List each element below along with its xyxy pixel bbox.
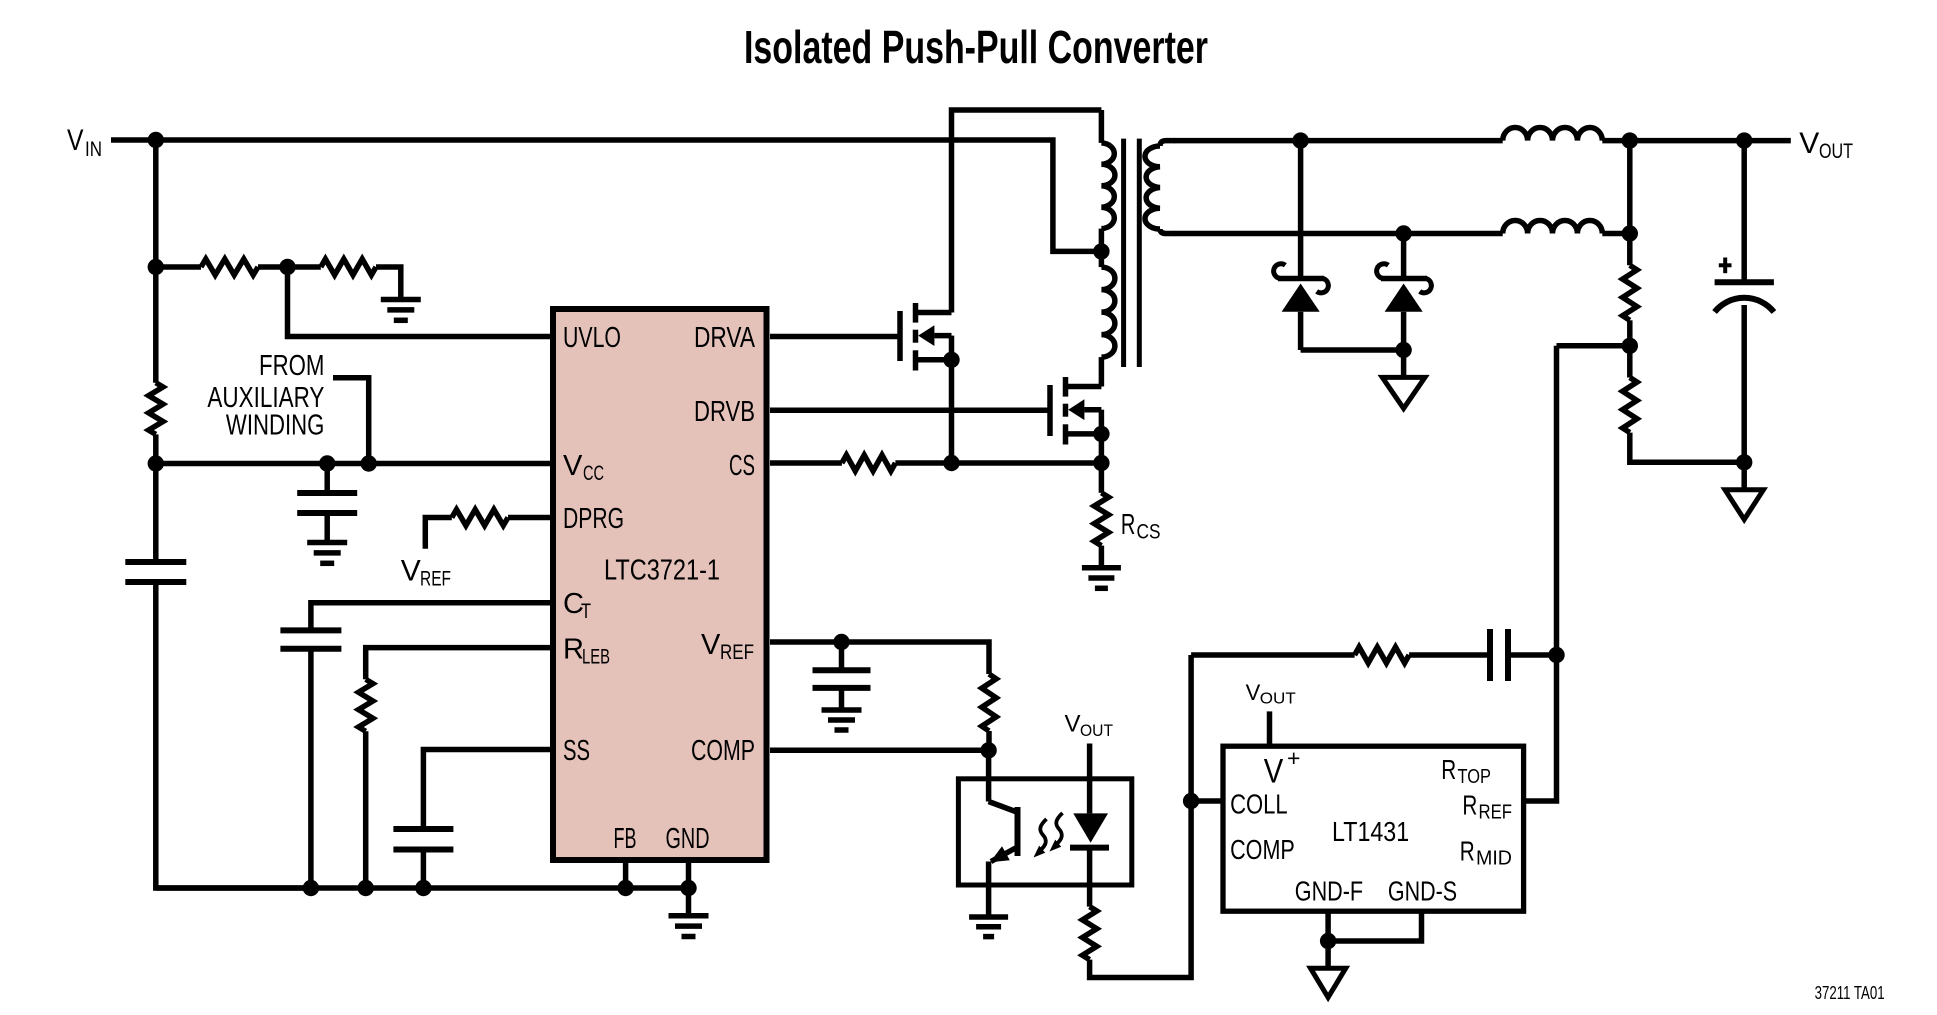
junction VREF cap (833, 634, 849, 650)
wire VCC (156, 461, 550, 467)
svg-text:UVLO: UVLO (563, 322, 621, 354)
transformer T1 core (1121, 139, 1126, 367)
resistor UVLO lower (321, 259, 376, 275)
transformer T1 secondary bottom corner (1160, 229, 1175, 234)
svg-text:REF: REF (1479, 802, 1513, 824)
wire VIN rail (111, 140, 1096, 251)
resistor divider bottom (1623, 378, 1637, 433)
junction COMP node (980, 742, 996, 758)
wire COUT top (1741, 141, 1747, 283)
optocoupler U2 body (958, 779, 1131, 885)
svg-text:R: R (1460, 836, 1475, 867)
junction CS-Q2 (1093, 455, 1109, 471)
svg-text:REF: REF (720, 641, 754, 664)
svg-text:V: V (1264, 753, 1284, 791)
transformer T1 secondary winding (1145, 146, 1160, 229)
svg-text:Isolated Push-Pull Converter: Isolated Push-Pull Converter (744, 21, 1208, 73)
junction COUT gnd (1736, 454, 1752, 470)
ground LT1431 triangle (1311, 968, 1346, 997)
svg-text:TOP: TOP (1458, 766, 1492, 788)
diode opto LED (1087, 744, 1093, 814)
wire comp RC mid (1409, 652, 1490, 658)
wire secondary top (1174, 138, 1503, 144)
wire RREF vertical (1524, 346, 1557, 801)
transformer T1 secondary top corner (1160, 141, 1175, 146)
wire RCS top (1099, 463, 1105, 493)
wire divider lower seg (1627, 346, 1633, 378)
junction comp RC (1548, 647, 1564, 663)
wire COMP (770, 748, 989, 754)
inductor L2 (1503, 220, 1603, 233)
wire DPRG to IC (508, 515, 550, 521)
wire Q1 source down (949, 360, 955, 463)
junction D1 top (1292, 132, 1308, 148)
junction CT rail (303, 880, 319, 896)
wire divider mid seg (1627, 320, 1633, 346)
svg-text:COLL: COLL (1230, 789, 1288, 820)
wire SS cap bottom (421, 850, 427, 889)
svg-text:V: V (1065, 711, 1081, 738)
wire UVLO seg2 (258, 264, 288, 270)
wire divider to gnd (1630, 433, 1744, 463)
wire comp RC right (1508, 652, 1557, 658)
wire DPRG corner (425, 518, 452, 549)
wire L2 out (1602, 231, 1630, 237)
transformer T1 primary top (1099, 110, 1105, 143)
wire GND drop (686, 888, 692, 916)
svg-text:COMP: COMP (691, 735, 755, 767)
wire RLEB bottom (363, 731, 369, 888)
junction Q1 source (943, 352, 959, 368)
wire VREF cap gnd stub (839, 688, 845, 708)
junction VIN left (148, 132, 164, 148)
wire CT (311, 603, 550, 631)
transformer T1 primary upper tail (1099, 229, 1105, 252)
junction divider tap (1622, 338, 1638, 354)
wire left rail seg (153, 434, 159, 464)
wire VREF pin (770, 642, 989, 674)
svg-text:CS: CS (729, 450, 755, 482)
capacitor input bulk (125, 559, 186, 565)
capacitor COUT polarized (1715, 279, 1774, 285)
svg-text:OUT: OUT (1819, 140, 1853, 163)
svg-text:V: V (401, 555, 421, 588)
svg-text:GND-F: GND-F (1295, 876, 1363, 907)
wire LT1431 gnd stub (1325, 941, 1331, 968)
ground IC GND (669, 913, 709, 919)
wire COUT bottom (1741, 305, 1747, 462)
wire left cap top (153, 464, 159, 563)
junction diode gnd (1395, 342, 1411, 358)
capacitor VREF bypass (813, 667, 871, 673)
wire DRVA (770, 334, 898, 340)
wire COLL pin (1191, 798, 1223, 804)
resistor RLEB (359, 679, 373, 731)
wire diode gnd stub (1401, 350, 1407, 377)
svg-text:37211 TA01: 37211 TA01 (1815, 982, 1885, 1003)
wire UVLO seg1 (156, 264, 201, 270)
capacitor SS (393, 826, 453, 832)
svg-text:IN: IN (85, 138, 102, 161)
wire L1 to VOUT (1602, 138, 1791, 144)
junction T1 center tap (1093, 243, 1109, 259)
junction D2 top (1395, 225, 1411, 241)
wire CS seg2 (895, 460, 951, 466)
junction GND rail (680, 880, 696, 896)
wire UVLO seg3 (288, 264, 321, 270)
svg-text:LTC3721-1: LTC3721-1 (604, 555, 720, 587)
wire secondary bottom (1174, 231, 1503, 237)
svg-text:MID: MID (1476, 848, 1512, 870)
capacitor CT (280, 627, 341, 633)
wire LED resistor out (1090, 655, 1192, 978)
transformer T1 primary lower winding (1101, 267, 1115, 357)
wire aux winding feed (333, 378, 369, 464)
svg-text:V: V (67, 124, 84, 157)
wire pullup bottom (986, 731, 992, 750)
ground diodes triangle (1382, 377, 1425, 408)
wire diode join (1301, 347, 1404, 353)
svg-text:DRVA: DRVA (694, 322, 756, 354)
svg-text:T: T (581, 600, 591, 623)
svg-text:CC: CC (583, 462, 604, 485)
svg-text:R: R (1462, 790, 1477, 821)
resistor UVLO upper (201, 259, 258, 275)
wire CT cap bottom (308, 649, 314, 888)
resistor divider top (1623, 265, 1637, 320)
resistor VREF pullup (982, 674, 996, 731)
junction SS rail (415, 880, 431, 896)
svg-text:OUT: OUT (1080, 721, 1113, 740)
wire RLEB (366, 648, 550, 680)
svg-text:WINDING: WINDING (226, 409, 325, 441)
svg-text:LT1431: LT1431 (1332, 816, 1409, 847)
svg-text:GND: GND (666, 823, 710, 855)
transistor opto phototransistor (986, 750, 992, 801)
svg-text:CS: CS (1137, 521, 1161, 544)
junction FB rail (617, 880, 633, 896)
wire CS (770, 460, 842, 466)
junction COUT top (1736, 132, 1752, 148)
inductor L1 (1503, 128, 1603, 141)
resistor LED bias (1082, 907, 1096, 960)
junction UVLO tap (279, 259, 295, 275)
ground VREF cap (822, 707, 862, 713)
junction COLL node (1183, 793, 1199, 809)
opto light arrows (1056, 813, 1062, 844)
wire Q2 source down (1099, 434, 1105, 463)
svg-text:R: R (1121, 509, 1136, 541)
wire V+ stub (1267, 711, 1273, 746)
wire DRVB (770, 408, 1048, 414)
junction divider mid-top (1622, 225, 1638, 241)
junction RLEB rail (358, 880, 374, 896)
junction VCC left (148, 455, 164, 471)
wire COUT gnd stub (1741, 462, 1747, 490)
transformer T1 primary lower tail (1099, 357, 1105, 386)
wire UVLO gnd corner (376, 267, 401, 297)
resistor CS filter (842, 455, 896, 471)
svg-text:+: + (1287, 745, 1300, 771)
svg-text:R: R (1441, 754, 1456, 785)
svg-text:COMP: COMP (1230, 834, 1295, 865)
svg-text:LEB: LEB (582, 646, 610, 669)
wire left rail bottom (156, 582, 311, 888)
wire GND stub (686, 860, 692, 888)
svg-text:R: R (563, 634, 584, 666)
junction VCC cap (319, 455, 335, 471)
wire divider tap out (1557, 343, 1630, 349)
junction divider top (1622, 132, 1638, 148)
label COUT plus (1719, 263, 1732, 267)
svg-text:V: V (1799, 127, 1819, 160)
svg-text:FB: FB (614, 823, 637, 855)
wire UVLO to IC (288, 267, 551, 337)
wire CS seg3 (952, 460, 1102, 466)
wire ground rail (156, 885, 689, 891)
svg-text:DPRG: DPRG (563, 503, 624, 535)
op-amp U3 LT1431 body (1223, 746, 1524, 911)
svg-text:GND-S: GND-S (1388, 876, 1457, 907)
junction LT1431 gnd (1320, 933, 1336, 949)
wire SS (423, 750, 550, 830)
svg-text:SS: SS (563, 735, 590, 767)
ground RCS (1082, 565, 1121, 571)
resistor RCS (1094, 493, 1108, 546)
svg-text:FROM: FROM (259, 350, 324, 382)
svg-text:DRVB: DRVB (694, 396, 755, 428)
diode D2 schottky (1401, 234, 1407, 279)
capacitor VCC bypass (297, 490, 357, 496)
resistor VIN bleed (149, 383, 163, 435)
svg-text:REF: REF (420, 568, 451, 591)
junction aux-VCC (361, 455, 377, 471)
transistor Q2 NMOS (1047, 385, 1053, 436)
svg-text:V: V (1246, 680, 1261, 705)
transistor Q1 NMOS (897, 311, 903, 361)
wire comp RC left (1191, 652, 1355, 658)
ground opto emitter (969, 914, 1008, 920)
junction CS-Q1 (943, 455, 959, 471)
wire VIN left drop (153, 140, 159, 267)
resistor DPRG (452, 510, 508, 526)
wire VREF cap stub (839, 642, 845, 670)
ground UVLO divider (381, 297, 421, 303)
svg-text:V: V (563, 450, 583, 482)
wire Q1 drain up (952, 110, 1102, 313)
transformer T1 primary upper winding (1101, 143, 1115, 229)
diode D1 schottky (1298, 141, 1304, 279)
transformer T1 primary lower head (1099, 251, 1105, 267)
wire VCC cap bottom (324, 513, 330, 540)
svg-text:OUT: OUT (1260, 691, 1297, 708)
wire GND-F stub (1325, 911, 1331, 941)
wire divider top seg (1627, 141, 1633, 266)
ground VCC cap (307, 540, 347, 546)
junction Q2 source (1093, 426, 1109, 442)
wire RCS bottom (1099, 546, 1105, 566)
capacitor comp (1487, 629, 1493, 681)
wire GND-S stub (1328, 911, 1421, 941)
resistor comp (1355, 647, 1410, 663)
ground COUT triangle (1725, 490, 1763, 520)
op-amp U1 LTC3721-1 body (553, 309, 767, 860)
junction UVLO divider top (148, 259, 164, 275)
svg-text:V: V (701, 629, 721, 661)
wire VCC cap top (324, 464, 330, 494)
wire left rail mid (153, 267, 159, 383)
wire FB stub (623, 860, 629, 888)
